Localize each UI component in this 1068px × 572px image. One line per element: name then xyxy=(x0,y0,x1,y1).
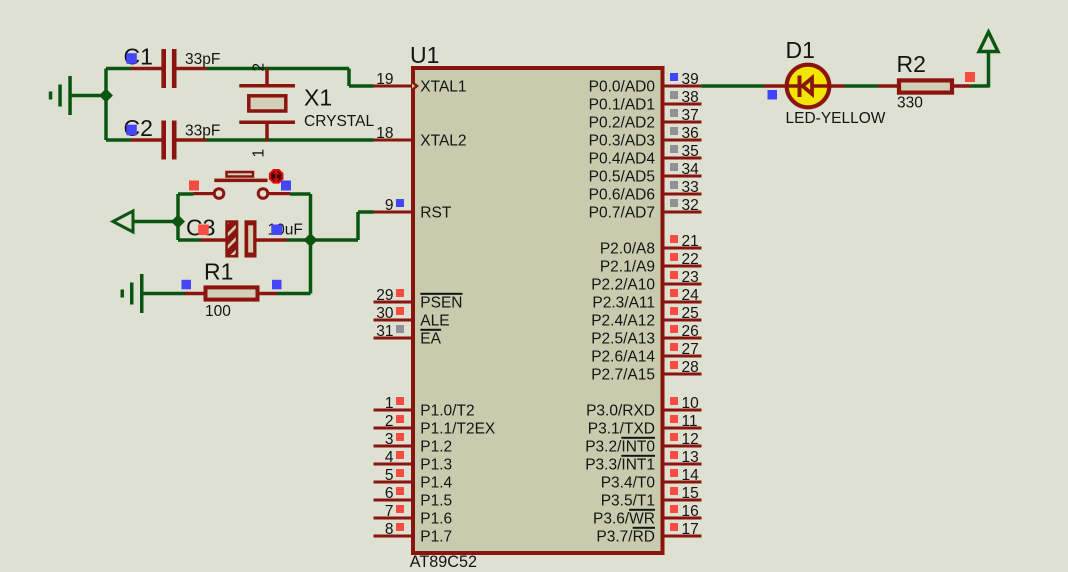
svg-text:36: 36 xyxy=(682,125,699,142)
svg-text:P0.2/AD2: P0.2/AD2 xyxy=(589,115,655,132)
svg-text:2: 2 xyxy=(385,413,394,430)
svg-text:11: 11 xyxy=(682,413,698,430)
svg-text:P2.7/A15: P2.7/A15 xyxy=(591,367,655,384)
svg-text:P2.1/A9: P2.1/A9 xyxy=(600,259,655,276)
svg-text:3: 3 xyxy=(385,431,394,448)
svg-text:EA: EA xyxy=(420,331,441,348)
svg-text:P3.4/T0: P3.4/T0 xyxy=(601,475,656,492)
svg-text:38: 38 xyxy=(682,89,699,106)
svg-text:22: 22 xyxy=(682,251,699,268)
svg-text:29: 29 xyxy=(376,287,393,304)
svg-text:P1.7: P1.7 xyxy=(420,529,452,546)
svg-text:D1: D1 xyxy=(786,37,815,63)
svg-text:P1.6: P1.6 xyxy=(420,511,452,528)
svg-text:P3.1/TXD: P3.1/TXD xyxy=(588,421,655,438)
svg-text:23: 23 xyxy=(682,269,699,286)
svg-text:P3.6/WR: P3.6/WR xyxy=(593,511,655,528)
svg-text:PSEN: PSEN xyxy=(420,295,462,312)
svg-text:18: 18 xyxy=(376,125,393,142)
svg-text:P3.2/INT0: P3.2/INT0 xyxy=(585,439,655,456)
svg-text:25: 25 xyxy=(682,305,699,322)
svg-text:XTAL2: XTAL2 xyxy=(420,133,466,150)
svg-text:35: 35 xyxy=(682,143,699,160)
svg-text:15: 15 xyxy=(682,485,699,502)
svg-text:P1.4: P1.4 xyxy=(420,475,452,492)
svg-text:P1.5: P1.5 xyxy=(420,493,452,510)
svg-text:31: 31 xyxy=(376,323,393,340)
svg-text:39: 39 xyxy=(682,71,699,88)
svg-text:CRYSTAL: CRYSTAL xyxy=(304,113,374,130)
svg-text:AT89C52: AT89C52 xyxy=(410,553,477,571)
svg-text:P0.3/AD3: P0.3/AD3 xyxy=(589,133,655,150)
svg-text:9: 9 xyxy=(385,197,394,214)
svg-text:34: 34 xyxy=(682,161,700,178)
svg-text:ALE: ALE xyxy=(420,313,449,330)
svg-text:28: 28 xyxy=(682,359,699,376)
svg-text:19: 19 xyxy=(376,71,393,88)
svg-text:8: 8 xyxy=(385,521,394,538)
svg-text:P0.4/AD4: P0.4/AD4 xyxy=(589,151,656,168)
svg-text:P3.7/RD: P3.7/RD xyxy=(596,529,655,546)
svg-text:10: 10 xyxy=(682,395,700,412)
svg-text:X1: X1 xyxy=(304,85,332,111)
svg-text:P2.5/A13: P2.5/A13 xyxy=(591,331,655,348)
svg-text:4: 4 xyxy=(385,449,394,466)
svg-text:P2.3/A11: P2.3/A11 xyxy=(592,295,655,312)
svg-text:6: 6 xyxy=(385,485,394,502)
svg-text:R2: R2 xyxy=(897,51,926,77)
svg-text:P0.7/AD7: P0.7/AD7 xyxy=(589,205,655,222)
svg-text:7: 7 xyxy=(385,503,394,520)
svg-text:P3.0/RXD: P3.0/RXD xyxy=(586,403,655,420)
svg-text:27: 27 xyxy=(682,341,699,358)
svg-text:1: 1 xyxy=(251,149,268,158)
svg-text:P1.0/T2: P1.0/T2 xyxy=(420,403,474,420)
svg-text:P2.4/A12: P2.4/A12 xyxy=(591,313,655,330)
svg-text:P3.3/INT1: P3.3/INT1 xyxy=(585,457,655,474)
svg-text:P3.5/T1: P3.5/T1 xyxy=(601,493,655,510)
svg-text:13: 13 xyxy=(682,449,699,466)
svg-text:26: 26 xyxy=(682,323,699,340)
svg-text:21: 21 xyxy=(682,233,699,250)
svg-text:LED-YELLOW: LED-YELLOW xyxy=(786,110,886,127)
svg-text:30: 30 xyxy=(376,305,394,322)
svg-text:P2.2/A10: P2.2/A10 xyxy=(591,277,655,294)
svg-text:16: 16 xyxy=(682,503,699,520)
svg-text:P0.1/AD1: P0.1/AD1 xyxy=(589,97,655,114)
svg-text:33pF: 33pF xyxy=(185,123,220,140)
svg-text:100: 100 xyxy=(205,303,231,320)
svg-text:5: 5 xyxy=(385,467,394,484)
svg-text:RST: RST xyxy=(420,205,452,222)
svg-text:P1.2: P1.2 xyxy=(420,439,452,456)
svg-text:XTAL1: XTAL1 xyxy=(420,79,466,96)
svg-text:32: 32 xyxy=(682,197,699,214)
svg-text:P0.5/AD5: P0.5/AD5 xyxy=(589,169,655,186)
svg-text:P2.0/A8: P2.0/A8 xyxy=(600,241,655,258)
svg-text:P2.6/A14: P2.6/A14 xyxy=(591,349,655,366)
svg-text:2: 2 xyxy=(251,63,268,72)
svg-text:24: 24 xyxy=(682,287,700,304)
svg-text:37: 37 xyxy=(682,107,699,124)
svg-text:14: 14 xyxy=(682,467,700,484)
svg-text:33pF: 33pF xyxy=(185,51,220,68)
svg-text:17: 17 xyxy=(682,521,699,538)
svg-text:U1: U1 xyxy=(410,42,439,68)
svg-text:R1: R1 xyxy=(204,259,233,285)
svg-text:P1.1/T2EX: P1.1/T2EX xyxy=(420,421,496,438)
svg-text:12: 12 xyxy=(682,431,699,448)
svg-text:33: 33 xyxy=(682,179,699,196)
svg-text:1: 1 xyxy=(385,395,394,412)
svg-text:P0.0/AD0: P0.0/AD0 xyxy=(589,79,656,96)
svg-text:P0.6/AD6: P0.6/AD6 xyxy=(589,187,655,204)
svg-text:P1.3: P1.3 xyxy=(420,457,452,474)
svg-text:330: 330 xyxy=(897,95,923,112)
